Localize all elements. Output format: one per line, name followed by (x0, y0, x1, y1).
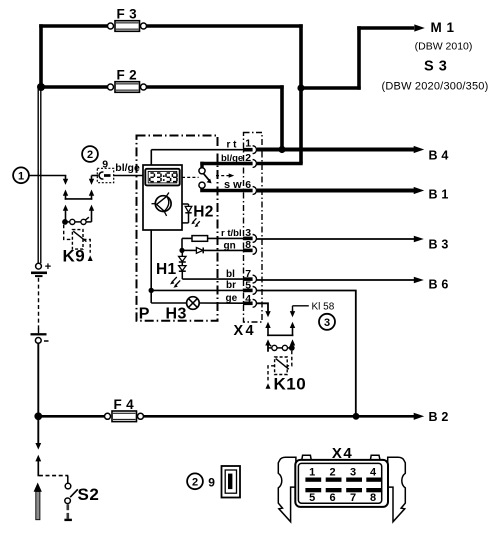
svg-text:S 3: S 3 (424, 59, 447, 75)
svg-text:M 1: M 1 (431, 20, 455, 35)
svg-text:(DBW 2010): (DBW 2010) (415, 41, 473, 53)
svg-text:(DBW 2020/300/350): (DBW 2020/300/350) (382, 80, 489, 92)
svg-text:6: 6 (245, 179, 251, 191)
svg-text:1: 1 (18, 170, 24, 182)
svg-text:1: 1 (245, 137, 251, 149)
svg-text:F 3: F 3 (117, 7, 138, 22)
svg-text:2: 2 (245, 152, 251, 164)
svg-text:gn: gn (224, 240, 236, 251)
svg-text:K9: K9 (63, 247, 86, 266)
svg-text:H2: H2 (193, 204, 213, 221)
svg-text:br: br (226, 280, 236, 291)
svg-text:S2: S2 (78, 485, 100, 504)
svg-text:Kl 58: Kl 58 (312, 302, 335, 313)
svg-text:6: 6 (329, 492, 335, 504)
svg-text:X4: X4 (234, 323, 256, 339)
svg-text:s w: s w (224, 179, 242, 191)
svg-text:H3: H3 (166, 306, 187, 323)
svg-text:H1: H1 (156, 261, 176, 278)
svg-text:F 4: F 4 (114, 397, 135, 412)
svg-text:F 2: F 2 (117, 68, 137, 83)
svg-text:8: 8 (370, 492, 376, 504)
svg-text:8: 8 (245, 239, 251, 251)
svg-text:2: 2 (329, 467, 335, 479)
svg-text:r t/bl: r t/bl (221, 228, 242, 239)
svg-text:7: 7 (245, 268, 251, 280)
svg-text:2: 2 (192, 476, 198, 488)
svg-text:ge: ge (226, 293, 238, 304)
svg-text:B 2: B 2 (429, 410, 449, 424)
svg-text:2: 2 (87, 149, 93, 161)
svg-text:3: 3 (245, 227, 251, 239)
svg-text:4: 4 (370, 467, 377, 479)
svg-text:B 3: B 3 (429, 237, 449, 251)
svg-text:P: P (139, 306, 150, 323)
svg-text:4: 4 (245, 293, 251, 305)
svg-text:7: 7 (350, 492, 356, 504)
svg-text:B 4: B 4 (429, 148, 449, 162)
svg-text:B 1: B 1 (429, 187, 449, 201)
svg-text:B 6: B 6 (429, 277, 449, 291)
svg-text:9: 9 (208, 475, 215, 489)
svg-text:3: 3 (324, 317, 330, 329)
svg-text:bl: bl (226, 269, 235, 280)
svg-text:1: 1 (309, 467, 315, 479)
svg-text:r t: r t (227, 139, 238, 150)
svg-text:+: + (45, 261, 51, 273)
svg-text:bl/ge: bl/ge (221, 153, 243, 164)
svg-text:K10: K10 (274, 375, 307, 394)
svg-text:5: 5 (309, 492, 315, 504)
svg-text:3: 3 (350, 467, 356, 479)
svg-text:5: 5 (245, 280, 251, 292)
